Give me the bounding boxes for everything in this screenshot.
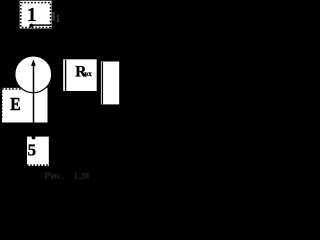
arrow of source (wire down to node 5) xyxy=(33,64,35,123)
E box dashed border (left + top) xyxy=(1,89,3,119)
source E circle xyxy=(15,56,52,93)
svg-text:1: 1 xyxy=(55,13,61,25)
wire (horizontal from node dot) xyxy=(31,24,51,26)
node A junction dot xyxy=(29,24,33,28)
svg-text:вх: вх xyxy=(84,69,92,78)
svg-text:Е: Е xyxy=(10,94,20,114)
caption Ris. 1.28 (faint) xyxy=(44,171,89,182)
wire through label box xyxy=(65,60,67,91)
resistor body (white rectangle) xyxy=(101,62,119,105)
circle E bottom arc redrawn over backing xyxy=(15,56,52,93)
current label I1 (faint) xyxy=(51,9,61,25)
resistor label box Rvx xyxy=(63,59,96,91)
svg-text:1.28: 1.28 xyxy=(73,172,89,182)
svg-text:Рис.: Рис. xyxy=(44,171,64,182)
E box white backing (with strip under circle) xyxy=(2,88,48,123)
node box 1 (dashed white box) xyxy=(20,1,52,29)
junction dot at node 5 xyxy=(32,136,36,140)
svg-text:5: 5 xyxy=(27,141,36,160)
svg-text:1: 1 xyxy=(27,5,37,26)
resistor left edge line xyxy=(101,62,103,104)
node box 5 (white box, dashed bottom) xyxy=(27,137,49,166)
